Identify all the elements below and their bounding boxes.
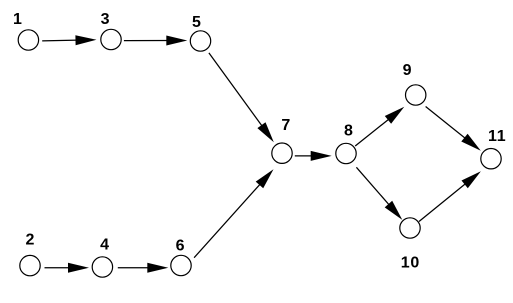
svg-text:6: 6 [176, 238, 186, 255]
svg-text:10: 10 [401, 254, 420, 271]
svg-text:4: 4 [100, 237, 110, 254]
svg-text:7: 7 [281, 117, 291, 134]
svg-text:9: 9 [403, 62, 413, 79]
svg-text:3: 3 [101, 11, 111, 28]
svg-text:2: 2 [25, 231, 35, 248]
svg-text:8: 8 [344, 123, 354, 140]
svg-text:11: 11 [488, 128, 507, 145]
svg-text:1: 1 [13, 11, 23, 28]
svg-text:5: 5 [192, 14, 202, 31]
